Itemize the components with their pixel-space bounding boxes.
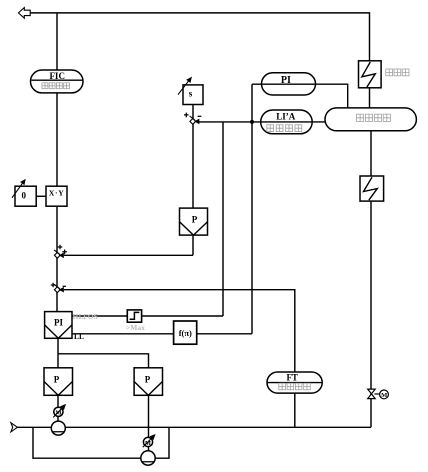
svg-text:P: P <box>54 375 60 385</box>
svg-text:0: 0 <box>22 190 27 200</box>
svg-text:HI.FOS: HI.FOS <box>73 312 98 321</box>
svg-text:f(π): f(π) <box>179 328 192 338</box>
svg-text:>Max: >Max <box>126 323 145 332</box>
svg-text:s: s <box>189 89 193 99</box>
svg-text:PI: PI <box>281 75 291 86</box>
svg-text:LI’A: LI’A <box>276 112 296 122</box>
svg-text:FT: FT <box>286 372 298 382</box>
svg-text:LL: LL <box>74 332 84 341</box>
svg-text:P: P <box>145 375 151 385</box>
svg-text:M: M <box>55 410 61 417</box>
svg-text:X·Y: X·Y <box>49 189 64 198</box>
svg-text:M: M <box>145 440 151 447</box>
svg-text:FIC: FIC <box>49 71 65 81</box>
svg-text:PI: PI <box>54 318 63 328</box>
svg-text:M: M <box>381 392 387 399</box>
svg-text:P: P <box>192 215 198 225</box>
